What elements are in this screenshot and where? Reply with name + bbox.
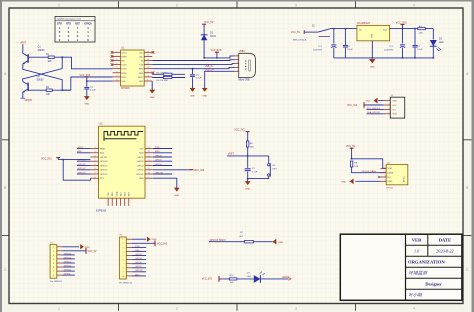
svg-text:RTS#: RTS#: [122, 73, 128, 75]
svg-text:RTS: RTS: [66, 23, 71, 25]
svg-text:TXD: TXD: [135, 246, 140, 248]
svg-text:NC: NC: [388, 177, 392, 179]
svg-text:GND: GND: [366, 101, 371, 103]
svg-text:GPIO2: GPIO2: [135, 266, 142, 268]
svg-text:15: 15: [148, 151, 150, 153]
svg-text:4: 4: [237, 66, 238, 68]
svg-text:GPIO16: GPIO16: [100, 161, 108, 163]
svg-text:3: 3: [295, 4, 297, 8]
svg-text:2020-8-22: 2020-8-22: [436, 249, 453, 254]
svg-text:CH_PD: CH_PD: [100, 157, 107, 159]
svg-text:LED: LED: [439, 42, 444, 44]
svg-text:GND: GND: [202, 95, 207, 97]
svg-text:DATE: DATE: [439, 238, 451, 243]
svg-text:2: 2: [237, 58, 238, 60]
svg-text:RST#: RST#: [138, 77, 144, 79]
svg-text:10K: 10K: [354, 166, 358, 168]
svg-text:Pin GNB1-10: Pin GNB1-10: [119, 282, 133, 284]
svg-text:GND: GND: [139, 81, 144, 83]
svg-text:TXD: TXD: [155, 147, 160, 149]
svg-text:2: 2: [117, 55, 118, 57]
svg-text:3: 3: [95, 156, 96, 158]
svg-text:4: 4: [117, 63, 118, 65]
svg-text:DTR#: DTR#: [122, 69, 128, 71]
svg-text:GND: GND: [388, 181, 393, 183]
svg-text:16: 16: [148, 147, 150, 149]
svg-text:uRST: uRST: [20, 42, 27, 45]
svg-text:UD-: UD-: [140, 52, 144, 54]
svg-text:VCC_3V3: VCC_3V3: [194, 170, 205, 172]
svg-text:3: 3: [237, 62, 238, 64]
svg-text:4: 4: [384, 180, 385, 182]
svg-text:CMD: CMD: [116, 191, 118, 196]
svg-text:S8050: S8050: [37, 79, 45, 82]
svg-text:VCC: VCC: [392, 105, 397, 107]
svg-text:VCC_5V: VCC_5V: [291, 31, 301, 34]
svg-text:GPIO4: GPIO4: [155, 160, 162, 162]
svg-text:GPIO2: GPIO2: [137, 170, 144, 172]
svg-text:5: 5: [95, 164, 96, 166]
svg-text:0.1uF: 0.1uF: [90, 90, 96, 92]
svg-text:GND: GND: [152, 239, 157, 241]
svg-text:3: 3: [117, 59, 118, 61]
svg-text:GND: GND: [392, 101, 397, 103]
svg-text:12: 12: [148, 164, 150, 166]
svg-text:GPIO0: GPIO0: [155, 164, 162, 166]
svg-text:1: 1: [58, 306, 60, 310]
svg-text:9: 9: [147, 80, 148, 82]
svg-text:DCD#: DCD#: [122, 65, 128, 67]
svg-text:3: 3: [384, 176, 385, 178]
svg-text:VCC_3V3: VCC_3V3: [347, 105, 358, 107]
svg-text:GPIO15: GPIO15: [64, 270, 72, 272]
svg-text:VCC: VCC: [100, 178, 105, 180]
svg-text:REST: REST: [100, 148, 106, 150]
svg-text:8: 8: [117, 80, 118, 82]
svg-text:GPIO12: GPIO12: [64, 261, 72, 263]
svg-text:GPIO0: GPIO0: [84, 23, 92, 25]
svg-text:0.1uF: 0.1uF: [196, 78, 202, 80]
svg-text:6: 6: [117, 71, 118, 73]
svg-text:7: 7: [117, 75, 118, 77]
svg-text:GPIO4: GPIO4: [137, 161, 144, 163]
svg-text:Designer: Designer: [425, 282, 442, 287]
svg-text:uRST: uRST: [228, 153, 235, 156]
svg-text:RXD: RXD: [155, 151, 160, 153]
svg-text:S8050: S8050: [38, 49, 46, 52]
svg-text:12: 12: [147, 67, 149, 69]
svg-text:VCC_3V3: VCC_3V3: [157, 243, 168, 245]
svg-text:VCC_3V3: VCC_3V3: [202, 279, 213, 281]
svg-text:USB_D-: USB_D-: [205, 66, 214, 68]
svg-text:GPIO0: GPIO0: [25, 99, 33, 102]
svg-text:GND: GND: [371, 33, 373, 38]
svg-text:2: 2: [176, 306, 178, 310]
svg-text:5: 5: [117, 67, 118, 69]
svg-text:DATA: DATA: [388, 172, 394, 175]
svg-text:10K: 10K: [250, 146, 254, 148]
svg-text:USB1: USB1: [239, 51, 246, 53]
svg-text:4: 4: [413, 306, 415, 310]
svg-text:DTR: DTR: [57, 23, 62, 25]
svg-text:SS34: SS34: [210, 36, 216, 38]
svg-text:1: 1: [388, 99, 389, 101]
svg-text:1: 1: [58, 4, 60, 8]
svg-text:0.1uF: 0.1uF: [252, 172, 258, 174]
svg-text:RXD: RXD: [139, 69, 144, 71]
svg-text:CLK: CLK: [108, 192, 110, 197]
svg-text:VCC_3V3: VCC_3V3: [234, 129, 245, 132]
svg-text:VCC_5V: VCC_5V: [88, 251, 97, 253]
svg-text:Vout: Vout: [383, 29, 388, 32]
svg-text:10uF/16V: 10uF/16V: [313, 49, 323, 51]
svg-text:GPIO5: GPIO5: [137, 157, 144, 159]
svg-text:GPIO12: GPIO12: [77, 168, 86, 170]
svg-text:VDD: VDD: [388, 168, 393, 170]
svg-text:10: 10: [148, 173, 150, 175]
svg-text:1: 1: [117, 51, 118, 53]
svg-text:R4 22R TXD: R4 22R TXD: [157, 72, 169, 74]
svg-text:GPIO5: GPIO5: [155, 155, 162, 157]
svg-text:SDA_GPIO12: SDA_GPIO12: [367, 111, 381, 114]
svg-text:GPIO5: GPIO5: [135, 254, 142, 256]
svg-text:4: 4: [413, 4, 415, 8]
svg-text:DHT11: DHT11: [404, 175, 406, 182]
svg-text:VER: VER: [412, 238, 422, 243]
svg-text:GND: GND: [174, 195, 179, 197]
svg-text:GND: GND: [370, 67, 375, 69]
svg-text:2: 2: [388, 104, 389, 106]
svg-text:10K: 10K: [230, 282, 234, 284]
svg-text:1: 1: [237, 54, 238, 56]
svg-text:GPIO16: GPIO16: [64, 253, 72, 255]
svg-text:GPIO13: GPIO13: [100, 174, 108, 176]
svg-text:DSR#: DSR#: [122, 56, 128, 58]
svg-text:GND: GND: [190, 95, 195, 97]
svg-text:uRST: uRST: [77, 147, 83, 149]
svg-text:环境监测: 环境监测: [409, 271, 429, 276]
svg-text:7: 7: [95, 173, 96, 175]
svg-text:GPIO14: GPIO14: [77, 164, 86, 166]
svg-text:ADC: ADC: [77, 150, 82, 153]
svg-text:GPIO15: GPIO15: [136, 174, 144, 176]
svg-text:R5 22R RXD: R5 22R RXD: [157, 80, 169, 82]
svg-text:11: 11: [147, 71, 149, 73]
svg-text:VCC: VCC: [122, 81, 127, 83]
svg-text:GPIO13_DATA: GPIO13_DATA: [362, 170, 377, 173]
svg-text:TXD: TXD: [139, 65, 144, 67]
svg-text:RXD: RXD: [139, 153, 144, 155]
svg-text:10K: 10K: [419, 32, 423, 34]
svg-text:叶小明: 叶小明: [409, 293, 423, 298]
svg-text:GND: GND: [245, 189, 250, 191]
svg-text:4: 4: [388, 112, 389, 114]
svg-text:MSK-12C02-A: MSK-12C02-A: [293, 38, 307, 41]
svg-text:DHT11: DHT11: [386, 187, 394, 189]
svg-text:1.0: 1.0: [414, 249, 420, 254]
svg-text:RST: RST: [75, 23, 80, 25]
svg-text:GPIO13: GPIO13: [64, 265, 72, 267]
svg-text:Pin GNB1-8: Pin GNB1-8: [50, 281, 62, 283]
svg-text:CH340N: CH340N: [121, 88, 130, 90]
svg-text:ORGANIZATION: ORGANIZATION: [408, 260, 445, 265]
svg-text:GPIO15: GPIO15: [135, 270, 143, 272]
svg-text:ADC: ADC: [135, 273, 140, 276]
svg-text:10uF/16V: 10uF/16V: [384, 49, 394, 51]
svg-text:2: 2: [95, 151, 96, 153]
svg-text:0.1uF: 0.1uF: [348, 49, 354, 51]
svg-text:esp8266 auto program circuit: esp8266 auto program circuit: [57, 18, 82, 21]
svg-text:U3 AMS1117: U3 AMS1117: [357, 22, 371, 25]
svg-text:14: 14: [147, 59, 149, 61]
svg-text:13: 13: [148, 160, 150, 162]
svg-text:GND: GND: [84, 104, 89, 106]
svg-text:KEY: KEY: [273, 169, 278, 171]
svg-text:GPIO15: GPIO15: [155, 172, 164, 174]
svg-text:GPIO14: GPIO14: [64, 257, 72, 259]
svg-text:10K: 10K: [48, 61, 53, 63]
svg-text:2: 2: [384, 171, 385, 173]
svg-text:9: 9: [148, 177, 149, 179]
svg-text:2: 2: [176, 4, 178, 8]
svg-text:SCL_GPIO14: SCL_GPIO14: [367, 108, 381, 110]
svg-text:13: 13: [147, 63, 149, 65]
svg-text:1: 1: [384, 167, 385, 169]
svg-text:GND: GND: [139, 73, 144, 75]
svg-text:Micro USB: Micro USB: [239, 79, 250, 82]
svg-text:10K: 10K: [46, 94, 51, 96]
svg-text:16: 16: [147, 51, 149, 53]
svg-text:1: 1: [95, 147, 96, 149]
svg-text:VCC_3V3: VCC_3V3: [41, 158, 52, 161]
svg-text:4: 4: [95, 160, 96, 162]
svg-text:8: 8: [95, 177, 96, 179]
svg-text:GND: GND: [341, 181, 346, 183]
svg-text:GPIO0: GPIO0: [137, 165, 144, 167]
svg-text:CTS#: CTS#: [122, 52, 128, 54]
svg-text:TXD: TXD: [139, 148, 144, 150]
svg-text:GPIO0: GPIO0: [135, 262, 142, 264]
svg-text:GPIO4: GPIO4: [135, 258, 142, 260]
svg-text:10: 10: [147, 75, 149, 77]
svg-text:11: 11: [148, 168, 150, 170]
svg-text:0.1uF: 0.1uF: [417, 49, 423, 51]
svg-text:3: 3: [388, 108, 389, 110]
svg-text:6: 6: [95, 168, 96, 170]
svg-text:3: 3: [295, 306, 297, 310]
svg-text:RXD: RXD: [135, 250, 140, 252]
svg-text:GND: GND: [150, 97, 155, 99]
svg-text:GPIO12: GPIO12: [100, 170, 108, 172]
svg-text:14: 14: [148, 156, 150, 158]
svg-text:15: 15: [147, 55, 149, 57]
svg-text:SDA: SDA: [392, 113, 397, 116]
svg-text:GND: GND: [139, 178, 144, 180]
svg-text:GND: GND: [278, 242, 283, 244]
svg-text:LED: LED: [247, 276, 252, 278]
svg-text:ESP8266: ESP8266: [96, 210, 107, 213]
svg-text:GPIO14: GPIO14: [100, 165, 108, 167]
svg-text:GPIO13: GPIO13: [77, 172, 86, 174]
svg-text:GPIO0: GPIO0: [64, 274, 71, 276]
svg-text:ADC: ADC: [100, 152, 105, 155]
svg-text:5: 5: [237, 70, 238, 72]
